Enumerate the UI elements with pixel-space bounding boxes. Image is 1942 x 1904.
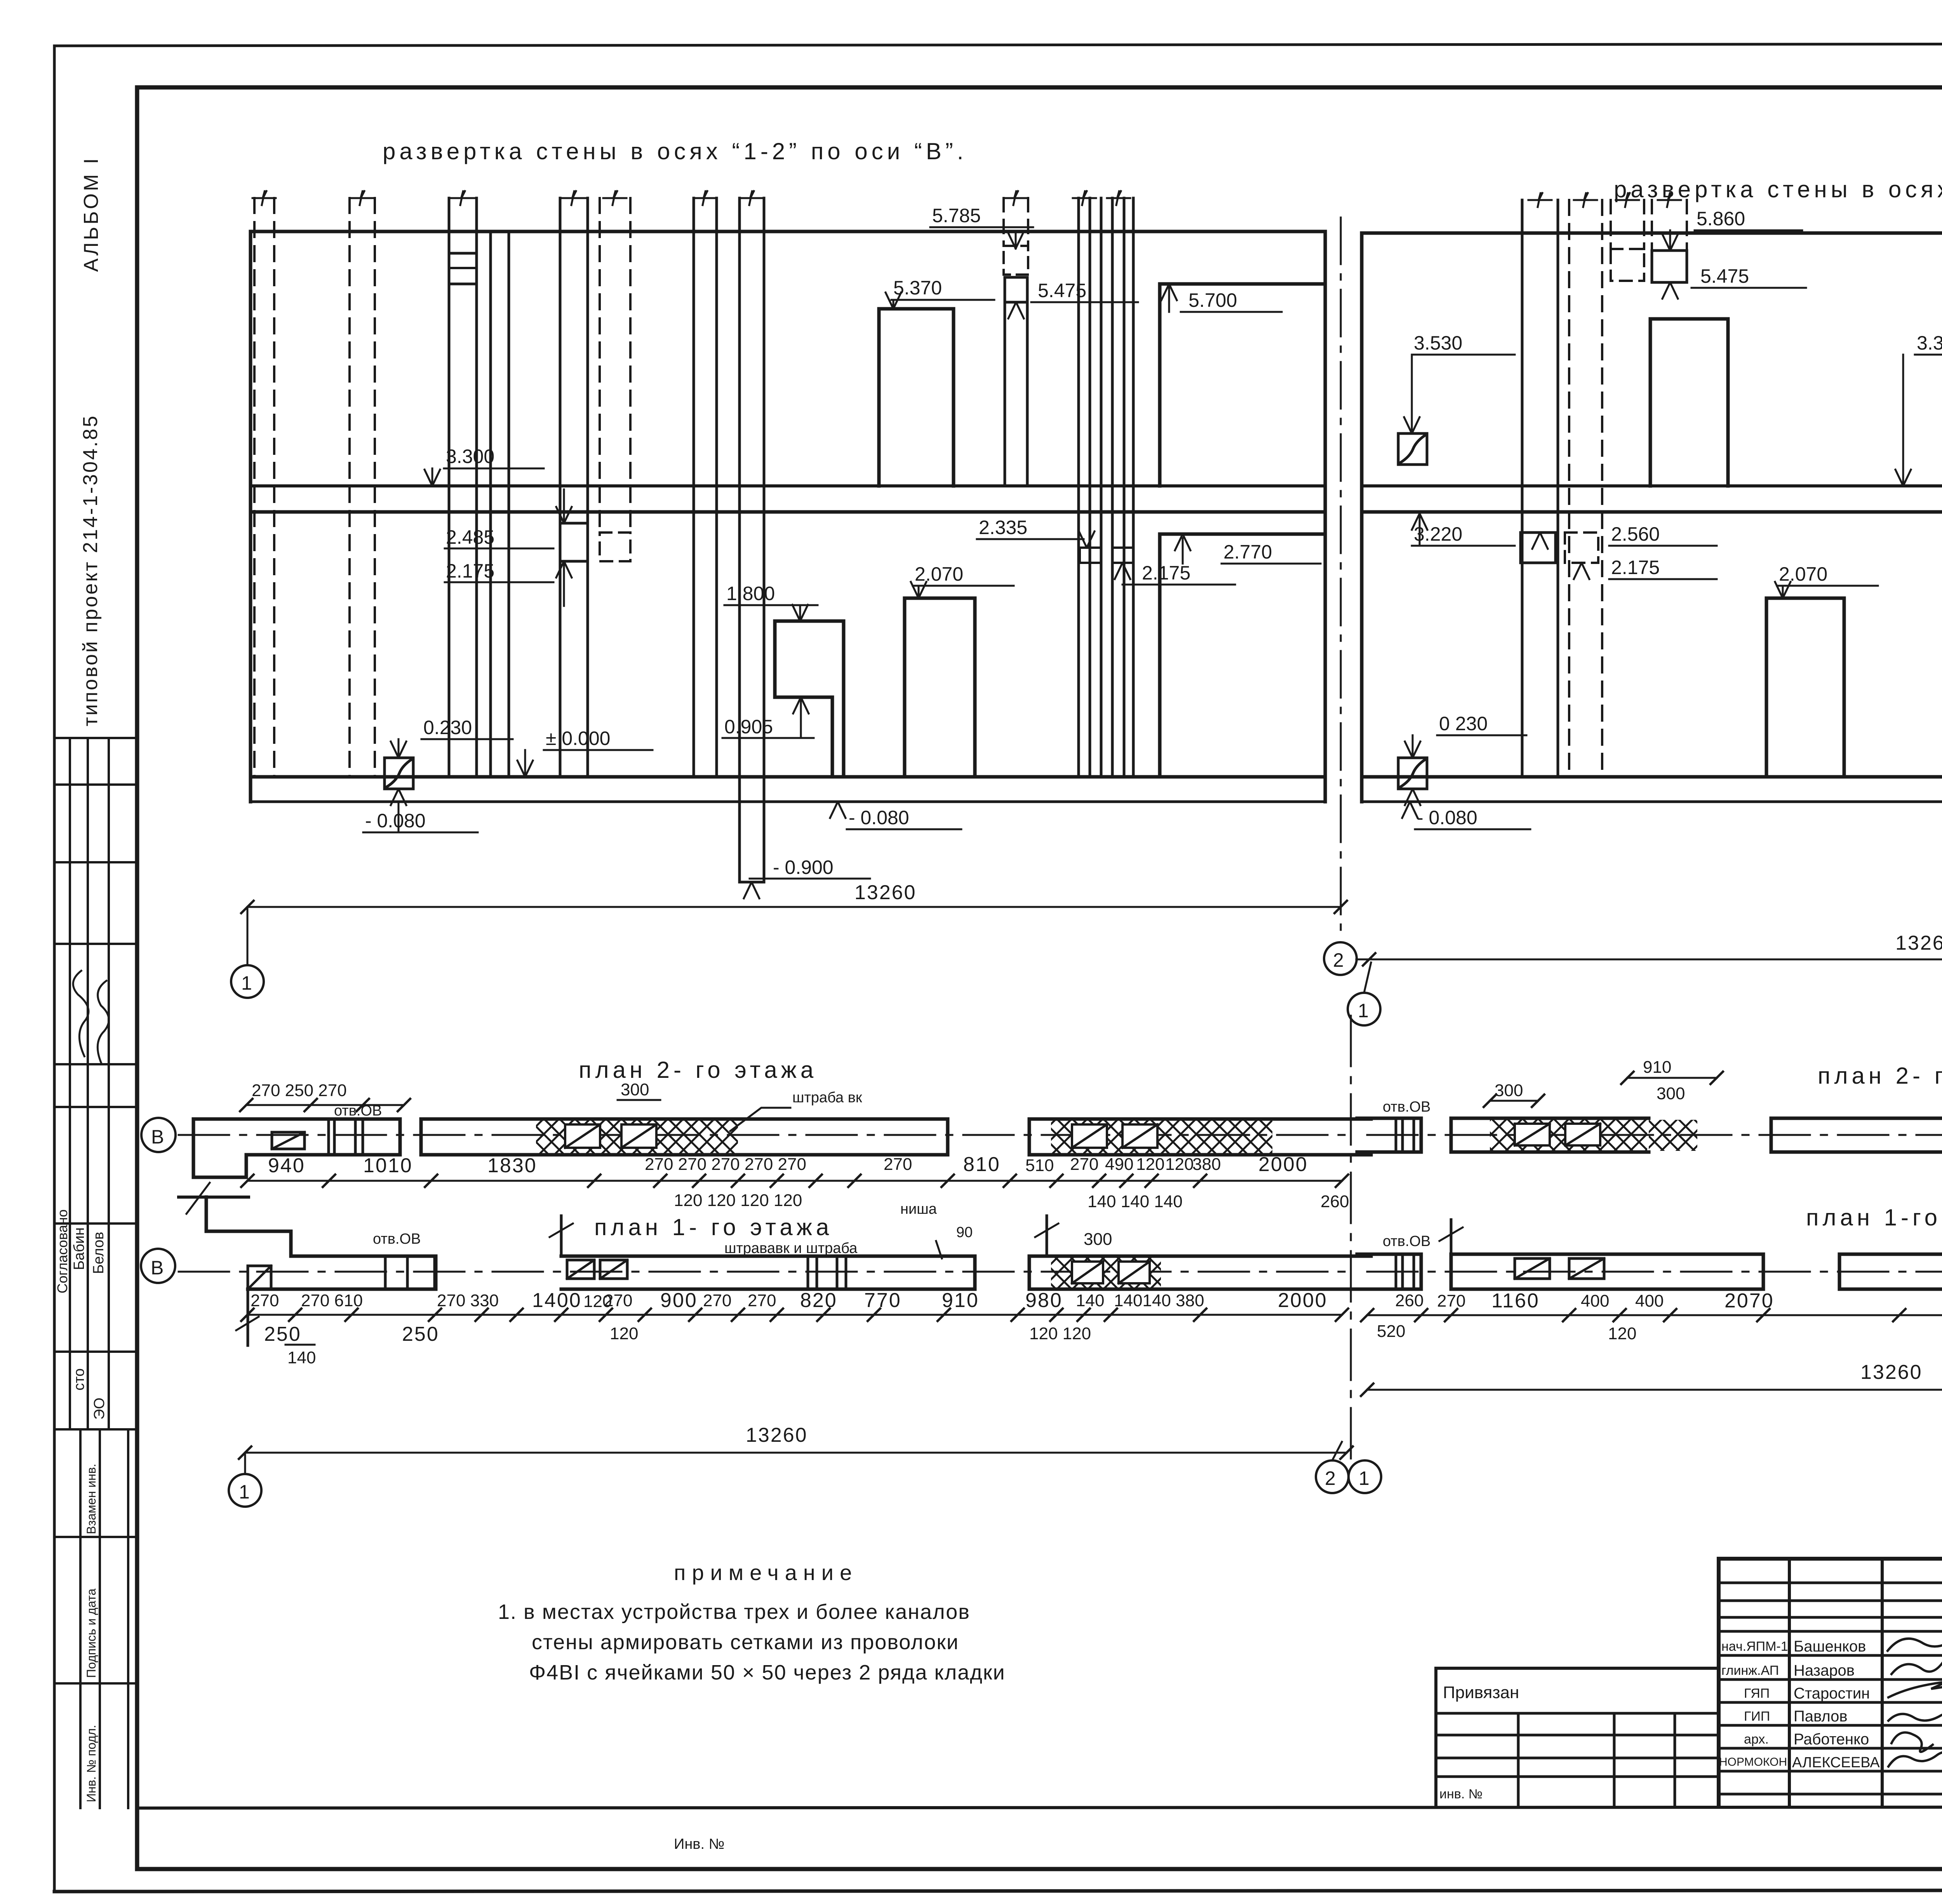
svg-text:1: 1	[241, 972, 252, 994]
plan1 block1 bottom	[248, 1256, 436, 1289]
svg-text:120 120 120 120: 120 120 120 120	[674, 1191, 802, 1210]
svg-text:250: 250	[264, 1323, 301, 1345]
plan1 vent box block1	[248, 1266, 271, 1289]
svg-text:инв. №: инв. №	[1439, 1787, 1483, 1801]
wall right edge	[1324, 231, 1327, 802]
dashed box 5.860	[1611, 249, 1644, 281]
svg-text:260: 260	[1395, 1291, 1423, 1310]
svg-text:270: 270	[748, 1291, 776, 1310]
svg-text:Павлов: Павлов	[1794, 1708, 1848, 1725]
svg-text:1: 1	[239, 1481, 250, 1503]
mark box 3.530	[1398, 433, 1427, 465]
svg-text:140 140 140: 140 140 140	[1088, 1192, 1183, 1211]
NOTES	[498, 1560, 1006, 1684]
svg-text:300: 300	[1657, 1084, 1685, 1103]
svg-text:Назаров: Назаров	[1794, 1662, 1855, 1679]
dim line 13260 right elevation	[1356, 959, 1942, 961]
axis circle 1 mid lower	[1348, 993, 1380, 1025]
RIGHT-ELEVATION	[1324, 176, 1942, 1025]
outer border left	[53, 46, 56, 1892]
svg-text:Согласовано: Согласовано	[54, 1210, 70, 1293]
svg-text:980: 980	[1025, 1289, 1063, 1312]
svg-text:план 2- го этажа: план 2- го этажа	[1818, 1063, 1942, 1089]
svg-text:3.530: 3.530	[1414, 332, 1462, 354]
svg-text:отв.ОВ: отв.ОВ	[373, 1231, 421, 1247]
svg-text:270 330: 270 330	[437, 1291, 499, 1310]
svg-text:0.230: 0.230	[423, 717, 472, 738]
svg-text:развертка стены в осях “1-2: развертка стены в осях “1-2” по оси “ж”.	[1614, 176, 1942, 202]
stamp grid horizontals	[54, 737, 137, 739]
svg-text:490: 490	[1105, 1155, 1133, 1174]
svg-text:В: В	[151, 1257, 164, 1279]
channel dashed C above boxes	[1611, 200, 1644, 249]
svg-text:Взамен инв.: Взамен инв.	[84, 1464, 98, 1534]
svg-text:штраба вк: штраба вк	[792, 1089, 862, 1106]
boxes 5.785 / 5.475	[1004, 198, 1028, 246]
svg-text:- 0.080: - 0.080	[365, 810, 426, 832]
svg-text:1: 1	[1358, 1000, 1369, 1022]
channel pair solid C with head box	[449, 198, 477, 777]
svg-text:2.485: 2.485	[446, 526, 494, 548]
svg-text:120: 120	[1165, 1155, 1194, 1174]
plan2 channel cells	[329, 1119, 363, 1155]
channel pair solid D	[491, 231, 509, 777]
svg-text:2.175: 2.175	[1142, 562, 1190, 584]
svg-text:глинж.АП: глинж.АП	[1721, 1663, 1779, 1678]
svg-text:910: 910	[1643, 1058, 1671, 1077]
svg-text:900: 900	[660, 1289, 698, 1312]
svg-text:2070: 2070	[1724, 1290, 1774, 1312]
svg-text:13260: 13260	[854, 881, 917, 904]
signature table verticals	[1789, 1559, 1942, 1807]
svg-text:ЭО: ЭО	[91, 1398, 108, 1420]
axis dash line plan2 right	[1367, 1134, 1942, 1136]
sub floor line	[1362, 801, 1942, 803]
second floor slab upper line	[251, 484, 1325, 487]
channel bundle I	[1079, 198, 1133, 777]
ground floor line	[1362, 775, 1942, 779]
svg-text:940: 940	[268, 1154, 305, 1177]
svg-text:НОРМОКОН: НОРМОКОН	[1719, 1756, 1787, 1768]
svg-text:Инв. №: Инв. №	[674, 1836, 724, 1852]
ragged hatch right of block2	[1649, 1120, 1697, 1151]
svg-text:300: 300	[1495, 1081, 1523, 1100]
boxes 2.560 / 2.175	[1521, 533, 1556, 563]
window second floor 5.370	[879, 309, 954, 486]
svg-text:Φ4ВI с ячейками 50 × 50 че: Φ4ВI с ячейками 50 × 50 через 2 ряда кла…	[529, 1661, 1006, 1684]
svg-text:5.785: 5.785	[932, 205, 981, 226]
svg-text:ГЯП: ГЯП	[1744, 1686, 1770, 1701]
svg-text:140: 140	[1076, 1291, 1104, 1310]
svg-text:ниша: ниша	[900, 1201, 937, 1217]
svg-text:120: 120	[1608, 1324, 1636, 1343]
door first floor 2.070	[1766, 598, 1844, 777]
svg-text:910: 910	[942, 1289, 979, 1312]
axis circles 2 and 1 bottom mid	[1316, 1460, 1349, 1493]
plan left 13260 dim	[245, 1452, 1347, 1454]
svg-text:примечание: примечание	[674, 1560, 858, 1585]
wall roof line	[251, 230, 1325, 233]
level mark 0.230	[385, 758, 413, 789]
svg-text:2000: 2000	[1258, 1153, 1308, 1176]
svg-text:Инв. № подл.: Инв. № подл.	[84, 1725, 98, 1802]
axis dash line plan1 right	[1367, 1271, 1942, 1273]
svg-text:3.300: 3.300	[1917, 332, 1942, 354]
svg-text:270: 270	[251, 1291, 279, 1310]
second floor slab upper line	[1362, 484, 1942, 487]
svg-text:Старостин: Старостин	[1794, 1685, 1870, 1702]
door second floor a	[1650, 319, 1728, 486]
bottom block verticals	[79, 1429, 82, 1808]
signatures rotated squiggles	[72, 970, 93, 1056]
plan2 block1 outline	[193, 1119, 400, 1177]
plans right 13260 dim	[1367, 1389, 1942, 1391]
channel pair solid A	[1522, 200, 1558, 777]
svg-text:120: 120	[1136, 1155, 1164, 1174]
plan2 hatch zone1	[536, 1121, 738, 1153]
svg-text:13260: 13260	[1860, 1361, 1923, 1384]
axis circle 1 bottom left	[244, 1453, 246, 1474]
svg-text:1830: 1830	[487, 1154, 537, 1177]
svg-text:250: 250	[402, 1323, 439, 1345]
svg-text:140: 140	[287, 1348, 316, 1367]
signature table rows	[1719, 1583, 1942, 1794]
plan2r long wall	[1771, 1118, 1942, 1152]
svg-text:270 270 270 270 270: 270 270 270 270 270	[645, 1155, 806, 1174]
svg-text:13260: 13260	[1895, 932, 1942, 954]
LEFT-ELEVATION	[231, 138, 1347, 998]
svg-text:270 610: 270 610	[301, 1291, 363, 1310]
svg-text:отв.ОВ: отв.ОВ	[334, 1103, 382, 1119]
svg-text:отв.ОВ: отв.ОВ	[1383, 1099, 1430, 1115]
svg-text:140140 380: 140140 380	[1114, 1291, 1204, 1310]
svg-text:В: В	[151, 1126, 164, 1148]
outer border bottom	[54, 1890, 1942, 1892]
bottom block rows	[54, 1536, 137, 1538]
axis circle B plan2	[141, 1118, 176, 1152]
svg-text:260: 260	[1321, 1192, 1349, 1211]
svg-text:5.860: 5.860	[1697, 208, 1745, 230]
svg-text:2: 2	[1333, 949, 1344, 971]
plan2 mini dims above	[246, 1104, 404, 1106]
stamp grid verticals	[69, 738, 71, 1429]
svg-text:1400: 1400	[532, 1289, 582, 1312]
svg-text:2.070: 2.070	[1779, 563, 1827, 585]
svg-text:план 1-го этажа: план 1-го этажа	[1806, 1204, 1942, 1230]
svg-text:13260: 13260	[746, 1424, 808, 1446]
svg-text:план 2- го этажа: план 2- го этажа	[579, 1057, 817, 1083]
svg-text:сто: сто	[71, 1368, 87, 1391]
channel pair to pit H	[740, 198, 764, 882]
axis dash line plan1 left	[179, 1271, 1348, 1273]
svg-text:типовой проект 214-1-304.85: типовой проект 214-1-304.85	[79, 414, 102, 726]
svg-text:Башенков: Башенков	[1794, 1638, 1866, 1655]
plan2 ragged hatch	[1218, 1121, 1272, 1153]
channel pair dashed A	[254, 198, 274, 777]
svg-text:Белов: Белов	[90, 1232, 107, 1274]
svg-text:- 0.900: - 0.900	[773, 856, 834, 878]
svg-text:270: 270	[1437, 1291, 1465, 1311]
svg-text:0.905: 0.905	[724, 716, 773, 738]
svg-text:90: 90	[956, 1224, 973, 1241]
svg-text:820: 820	[800, 1289, 837, 1312]
svg-text:120 120: 120 120	[1029, 1324, 1091, 1343]
plan1 channel cells block1	[385, 1256, 435, 1289]
TITLE-BLOCK	[1436, 1559, 1942, 1851]
left extension attach table	[1436, 1667, 1719, 1670]
svg-text:нач.ЯПМ-1: нач.ЯПМ-1	[1721, 1639, 1788, 1654]
svg-text:400: 400	[1635, 1291, 1664, 1311]
svg-text:АЛЬБОМ I: АЛЬБОМ I	[80, 156, 103, 272]
svg-text:2000: 2000	[1278, 1289, 1328, 1312]
svg-text:300: 300	[1084, 1230, 1112, 1249]
axis line between elevations	[1340, 218, 1342, 940]
svg-text:2.175: 2.175	[446, 560, 494, 582]
sub floor line	[251, 801, 1325, 803]
channel pair dashed B	[350, 198, 375, 777]
svg-text:1160: 1160	[1491, 1290, 1540, 1312]
svg-text:400: 400	[1581, 1291, 1609, 1311]
svg-text:АЛЕКСЕЕВА: АЛЕКСЕЕВА	[1792, 1754, 1880, 1771]
axis circle B plan1	[141, 1249, 175, 1283]
axis dash line plan2 left	[179, 1134, 1348, 1136]
svg-text:1010: 1010	[363, 1154, 413, 1177]
svg-text:арх.: арх.	[1744, 1732, 1769, 1747]
channel dashed F with dashed box	[600, 198, 630, 533]
pit bottom	[740, 881, 764, 884]
svg-text:120: 120	[610, 1324, 638, 1343]
svg-text:- 0.080: - 0.080	[1417, 807, 1477, 828]
svg-text:270: 270	[703, 1291, 731, 1310]
svg-text:ГИП: ГИП	[1744, 1709, 1770, 1724]
dim line 13260 elevation left	[247, 906, 1341, 908]
svg-text:1.800: 1.800	[726, 583, 775, 604]
wall left edge	[249, 231, 252, 802]
opening 5.700 second floor	[1160, 284, 1325, 486]
plan2 block2	[421, 1119, 948, 1155]
svg-text:1. в местах устройства тре: 1. в местах устройства трех и более кана…	[498, 1600, 970, 1624]
svg-text:план 1- го этажа: план 1- го этажа	[594, 1214, 833, 1240]
svg-text:± 0.000: ± 0.000	[546, 727, 610, 749]
plan2 hatch zone2	[1051, 1121, 1218, 1153]
plan2r block1	[1357, 1118, 1421, 1152]
svg-text:0 230: 0 230	[1439, 713, 1488, 734]
level mark 0.230 right	[1398, 758, 1427, 789]
plan2 dim chain	[247, 1180, 1342, 1182]
ground floor line	[251, 775, 1325, 779]
svg-text:развертка стены в осях “1-: развертка стены в осях “1-2” по оси “В”.	[383, 138, 968, 164]
svg-text:270: 270	[1070, 1155, 1098, 1174]
plan1r block2	[1451, 1254, 1763, 1289]
svg-text:Привязан: Привязан	[1443, 1683, 1519, 1702]
wall left edge	[1360, 233, 1364, 802]
plan2 vent box with slash	[272, 1132, 305, 1149]
svg-text:5.475: 5.475	[1700, 265, 1749, 287]
stepped niche first floor	[775, 621, 844, 777]
svg-text:- 0.080: - 0.080	[849, 807, 909, 828]
second floor line	[1362, 510, 1942, 514]
plan1 block2	[561, 1256, 975, 1289]
SIDEBAR	[54, 156, 137, 1808]
channel pair solid E with box 2.485	[560, 198, 588, 777]
svg-text:Бабин: Бабин	[71, 1227, 87, 1270]
plan1 block3	[1029, 1256, 1371, 1289]
svg-text:1: 1	[1359, 1467, 1369, 1489]
channel pair solid G	[694, 198, 717, 777]
channel dashed B	[1569, 200, 1602, 777]
svg-text:270: 270	[604, 1291, 632, 1310]
svg-text:2.070: 2.070	[915, 563, 963, 585]
signature squiggles	[1888, 1624, 1942, 1651]
door first floor 2.070	[905, 598, 975, 777]
plan2r block2 with hatch	[1451, 1118, 1649, 1152]
svg-text:2.770: 2.770	[1223, 541, 1272, 563]
svg-text:300: 300	[621, 1080, 649, 1099]
svg-text:270: 270	[884, 1155, 912, 1174]
svg-text:отв.ОВ: отв.ОВ	[1383, 1233, 1430, 1250]
plan1r block1	[1357, 1254, 1421, 1289]
svg-text:2.335: 2.335	[979, 517, 1027, 538]
plan1r dim chain	[1367, 1314, 1942, 1316]
svg-text:2: 2	[1325, 1467, 1336, 1489]
plan1 left jog to elevation	[179, 1196, 249, 1199]
svg-text:Работенко: Работенко	[1794, 1731, 1869, 1748]
svg-text:5.700: 5.700	[1189, 289, 1237, 311]
plan1r block3	[1839, 1254, 1942, 1289]
svg-text:3.300: 3.300	[446, 446, 494, 467]
svg-text:810: 810	[963, 1153, 1001, 1176]
footer band line full width	[137, 1807, 1942, 1808]
outer border top	[54, 44, 1942, 46]
plan1 dim chain	[247, 1314, 1342, 1316]
svg-text:стены армировать сетками из: стены армировать сетками из проволоки	[532, 1631, 959, 1654]
axis circle 2 mid upper	[1324, 942, 1357, 975]
svg-text:380: 380	[1192, 1155, 1221, 1174]
svg-text:2.560: 2.560	[1611, 523, 1660, 545]
PLANS-LEFT	[141, 1016, 1381, 1507]
opening 2.770 first floor	[1160, 534, 1325, 777]
svg-text:510: 510	[1025, 1156, 1054, 1175]
svg-text:2.175: 2.175	[1611, 557, 1660, 578]
wall roof line	[1362, 231, 1942, 235]
stamp outer top	[1719, 1557, 1942, 1561]
svg-text:520: 520	[1377, 1322, 1405, 1341]
svg-text:3.220: 3.220	[1414, 523, 1462, 545]
solid box 5.475	[1652, 251, 1687, 282]
second floor line	[251, 510, 1325, 514]
stamp left edge	[1717, 1559, 1721, 1807]
plan2 block3	[1029, 1119, 1371, 1155]
svg-text:Подпись и дата: Подпись и дата	[84, 1589, 98, 1678]
svg-text:штрававк и штраба: штрававк и штраба	[724, 1240, 858, 1257]
PLANS-RIGHT	[1357, 1023, 1942, 1516]
svg-text:770: 770	[864, 1289, 901, 1312]
axis circle 1 left	[247, 907, 249, 965]
svg-text:270 250 270: 270 250 270	[252, 1081, 347, 1100]
divider axis line between plans	[1350, 1016, 1352, 1460]
